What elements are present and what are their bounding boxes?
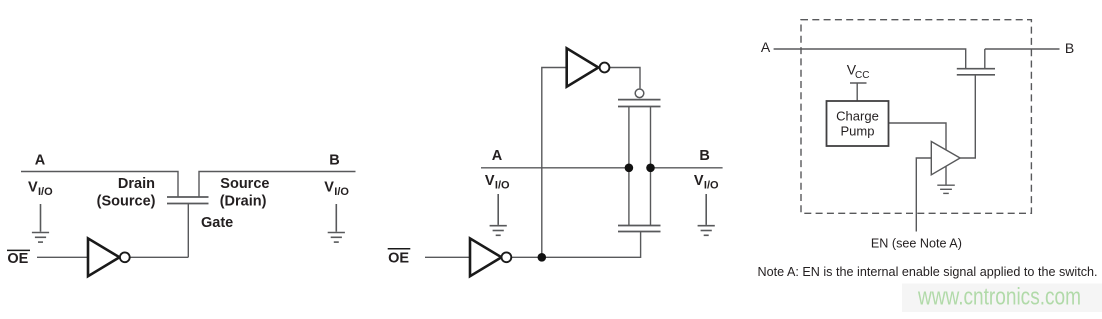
svg-text:V: V (324, 179, 334, 195)
svg-text:(Source): (Source) (97, 194, 156, 210)
svg-text:www.cntronics.com: www.cntronics.com (917, 284, 1081, 311)
svg-text:Source: Source (220, 176, 269, 192)
svg-text:Note A: EN is the internal ena: Note A: EN is the internal enable signal… (758, 265, 1098, 279)
svg-text:V: V (694, 173, 704, 189)
svg-text:I/O: I/O (38, 186, 53, 198)
svg-text:(Drain): (Drain) (220, 194, 267, 210)
svg-text:Charge: Charge (836, 109, 879, 124)
svg-text:A: A (35, 153, 46, 169)
svg-text:CC: CC (855, 70, 869, 81)
svg-text:B: B (329, 153, 339, 169)
svg-text:V: V (28, 179, 38, 195)
svg-text:B: B (1065, 40, 1074, 56)
svg-text:OE: OE (7, 251, 28, 267)
svg-text:Drain: Drain (118, 176, 155, 192)
svg-text:A: A (492, 148, 503, 164)
svg-text:I/O: I/O (334, 186, 349, 198)
svg-text:Pump: Pump (841, 123, 875, 138)
svg-text:Gate: Gate (201, 215, 233, 231)
svg-text:V: V (485, 173, 495, 189)
svg-text:EN (see Note A): EN (see Note A) (871, 237, 962, 251)
svg-text:I/O: I/O (704, 180, 719, 192)
svg-text:OE: OE (388, 250, 409, 266)
svg-text:B: B (699, 148, 709, 164)
svg-text:I/O: I/O (495, 180, 510, 192)
svg-text:A: A (761, 39, 771, 55)
